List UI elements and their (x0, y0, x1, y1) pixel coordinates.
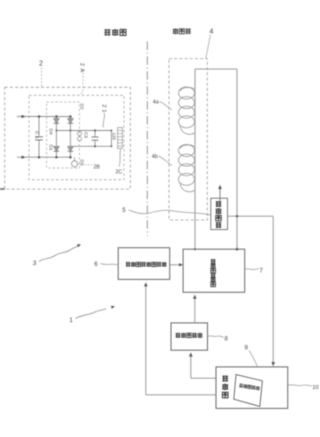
svg-text:1: 1 (34, 136, 40, 139)
svg-text:D1: D1 (49, 145, 54, 151)
svg-text:1: 1 (69, 317, 73, 324)
svg-text:2C: 2C (116, 170, 123, 176)
svg-text:8: 8 (225, 337, 229, 343)
svg-text:4: 4 (210, 29, 214, 36)
svg-text:2: 2 (39, 61, 43, 68)
svg-text:6: 6 (94, 262, 98, 268)
svg-text:D4: D4 (49, 129, 54, 135)
svg-text:2: 2 (79, 63, 85, 66)
svg-text:5: 5 (122, 208, 126, 214)
svg-text:4a: 4a (153, 100, 159, 106)
svg-text:2B: 2B (94, 165, 101, 171)
svg-text:9: 9 (245, 346, 249, 352)
svg-text:D2: D2 (80, 104, 85, 110)
svg-text:2: 2 (101, 105, 107, 108)
svg-text:C3: C3 (84, 132, 89, 138)
svg-text:D3: D3 (80, 160, 85, 166)
svg-text:1: 1 (101, 110, 107, 113)
svg-text:4b: 4b (152, 154, 158, 160)
svg-text:C: C (34, 131, 40, 135)
svg-text:120: 120 (112, 133, 117, 141)
svg-text:7: 7 (260, 269, 264, 275)
svg-text:10: 10 (312, 385, 318, 391)
svg-text:3: 3 (33, 260, 37, 267)
svg-text:A: A (79, 69, 85, 73)
